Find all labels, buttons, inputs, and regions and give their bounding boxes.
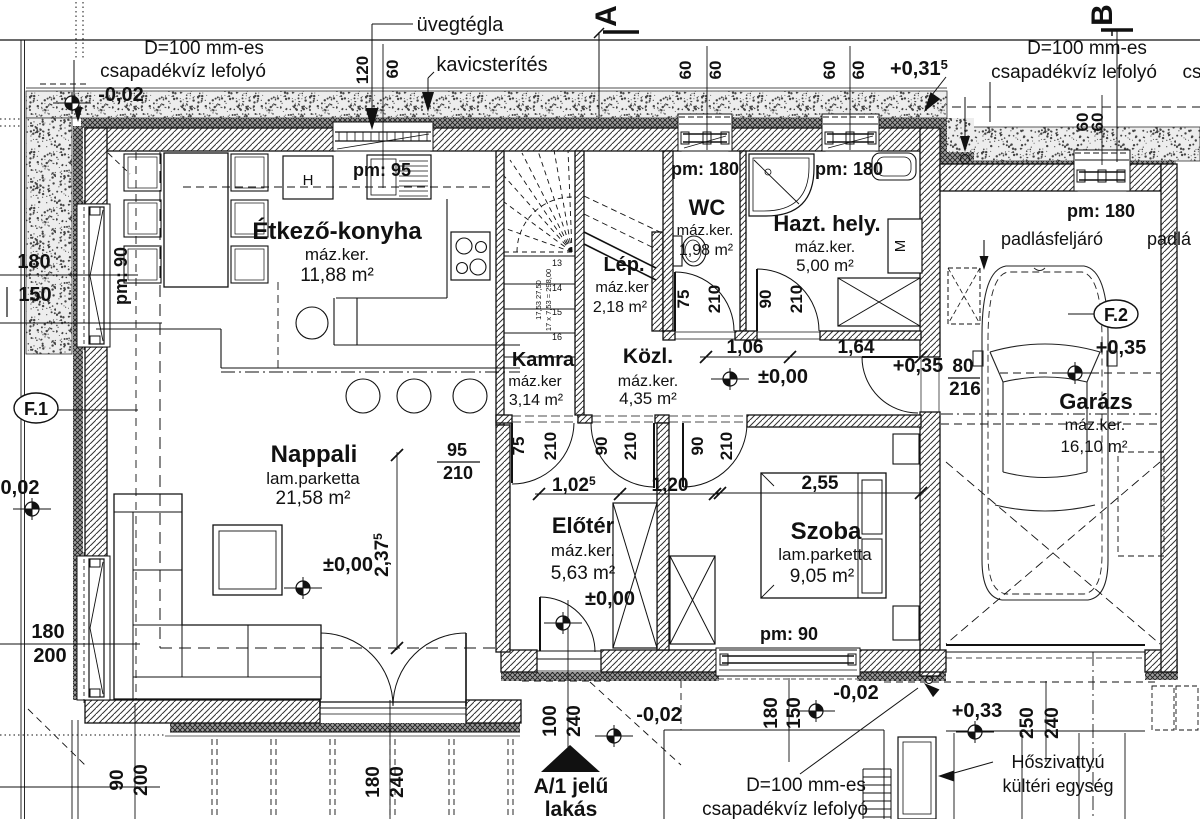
insulation strip top	[81, 118, 939, 128]
wall: eloter/szoba partition	[657, 423, 669, 650]
cooktop with burners	[451, 232, 490, 280]
wall: corridor south pier2	[578, 415, 592, 423]
leader bottom drain	[800, 688, 918, 774]
eloter wardrobe X	[613, 503, 657, 648]
svg-text:±0,00: ±0,00	[323, 554, 373, 576]
svg-text:210: 210	[621, 432, 640, 460]
leader heat pump	[954, 762, 993, 773]
svg-text:Étkező-konyha: Étkező-konyha	[252, 217, 422, 245]
hazt cabinet X	[838, 278, 920, 326]
svg-text:180: 180	[363, 766, 384, 798]
svg-text:5,63 m²: 5,63 m²	[551, 563, 615, 584]
svg-text:60: 60	[820, 61, 839, 80]
plot boundary double line left	[20, 40, 22, 819]
eaves dashed line right band	[952, 106, 1200, 108]
interior dashed vertical	[135, 152, 137, 700]
gravel top extra line	[26, 87, 947, 89]
svg-text:F.1: F.1	[24, 399, 48, 419]
svg-text:3,14 m²: 3,14 m²	[509, 392, 564, 409]
dim line eloter 1,02-5 / 1,20	[535, 493, 720, 495]
door: kozl-eloter (90/210) leaf+arc	[653, 423, 655, 488]
svg-text:pm: 180: pm: 180	[1067, 201, 1135, 221]
roof overhang dashed left vertical	[159, 152, 161, 648]
wall: corridor south pier1	[496, 415, 512, 423]
svg-text:4,35 m²: 4,35 m²	[619, 389, 677, 408]
roof overhang dashed bottom	[160, 647, 496, 649]
svg-text:16,10 m²: 16,10 m²	[1060, 437, 1127, 456]
svg-text:A: A	[590, 5, 623, 27]
svg-text:60: 60	[383, 60, 402, 79]
dim line kozl 1,06 / 1,64	[700, 356, 921, 358]
svg-text:21,58 m²: 21,58 m²	[276, 488, 351, 509]
svg-text:13: 13	[552, 258, 562, 268]
svg-text:-0,02: -0,02	[98, 84, 144, 106]
wall: szoba top	[747, 415, 921, 427]
svg-text:90: 90	[688, 437, 707, 456]
wall: eloter bottom left pier	[501, 650, 537, 672]
svg-text:150: 150	[18, 284, 51, 306]
svg-text:2,375: 2,375	[371, 533, 393, 577]
svg-text:210: 210	[541, 432, 560, 460]
wall: wc/hazt partition	[740, 151, 746, 331]
svg-text:60: 60	[849, 61, 868, 80]
padlasfeljaro arrow	[983, 240, 985, 258]
window: hazt top (pm:180, 60+60)	[822, 114, 879, 151]
svg-text:250: 250	[1017, 707, 1038, 739]
svg-text:pm: 95: pm: 95	[353, 160, 411, 180]
svg-text:cs: cs	[1183, 62, 1200, 83]
wall: wc-hazt bottom seg3	[820, 331, 921, 340]
leader line right D=100	[989, 82, 991, 122]
kitchen counter lines	[446, 199, 448, 298]
dim line nappali 2,37-5 vertical	[396, 452, 398, 650]
driveway dash-dot centerline	[1092, 652, 1094, 819]
svg-text:lam.parketta: lam.parketta	[266, 469, 360, 488]
door: kamra (75/210) leaf+arc	[511, 423, 513, 483]
svg-text:Közl.: Közl.	[623, 345, 673, 368]
wall: eloter-szoba bottom middle	[601, 650, 719, 672]
wall: garage top right segment	[1127, 164, 1161, 191]
svg-text:padlásfeljáró: padlásfeljáró	[1001, 229, 1103, 249]
svg-text:lam.parketta: lam.parketta	[778, 545, 872, 564]
insulation step right	[939, 118, 947, 170]
svg-text:kavicsterítés: kavicsterítés	[436, 54, 547, 76]
wall: top exterior, right segment	[876, 128, 921, 151]
dashed porch lines	[522, 680, 610, 682]
insulation strip right band	[947, 161, 1176, 170]
svg-text:máz.ker.: máz.ker.	[618, 373, 678, 390]
svg-text:1,20: 1,20	[652, 475, 689, 496]
svg-text:padlá: padlá	[1147, 229, 1192, 249]
stair: walk line arc	[517, 197, 572, 252]
svg-text:14: 14	[552, 283, 562, 293]
sofa L-shape	[114, 494, 321, 699]
gate rails bottom right	[1152, 686, 1174, 730]
svg-text:11,88 m²: 11,88 m²	[300, 265, 374, 286]
svg-text:±0,00: ±0,00	[585, 588, 635, 610]
svg-text:máz.ker.: máz.ker.	[305, 245, 369, 264]
kitchen chairs left column	[124, 154, 161, 191]
dotted terrace edge	[0, 734, 165, 736]
svg-text:csapadékvíz lefolyó: csapadékvíz lefolyó	[991, 62, 1157, 83]
bar stools circles	[346, 379, 380, 413]
svg-text:75: 75	[509, 437, 528, 456]
svg-text:Nappali: Nappali	[271, 441, 358, 468]
wall: bottom nappali left segment	[85, 700, 320, 723]
svg-text:B: B	[1086, 4, 1119, 26]
svg-text:máz.ker: máz.ker	[508, 373, 561, 390]
nightstand bottom	[893, 606, 919, 640]
rain downpipe symbol	[964, 97, 966, 145]
svg-text:180: 180	[761, 697, 782, 729]
dashed diagonal entrance	[590, 682, 681, 765]
kitchen chairs right column	[231, 154, 268, 191]
svg-text:60: 60	[706, 61, 725, 80]
marker F.1	[14, 393, 58, 423]
dotted setout lines top-left	[75, 2, 77, 60]
dim verticals top windows	[382, 44, 384, 188]
svg-text:180: 180	[31, 621, 64, 643]
coffee table	[213, 525, 282, 595]
svg-text:1,06: 1,06	[727, 337, 764, 358]
svg-text:A/1 jelű: A/1 jelű	[534, 775, 609, 798]
svg-text:Szoba: Szoba	[791, 518, 862, 545]
svg-text:csapadékvíz lefolyó: csapadékvíz lefolyó	[100, 61, 266, 82]
svg-text:17 x 7,53 = 298,00: 17 x 7,53 = 298,00	[544, 269, 553, 331]
wall: stair right / kamra partition	[575, 151, 584, 415]
svg-text:pm: 180: pm: 180	[671, 159, 739, 179]
wall: left exterior upper	[85, 128, 107, 204]
kitchen table	[164, 153, 228, 287]
stair: treads	[504, 255, 575, 257]
svg-text:210: 210	[443, 463, 473, 483]
svg-text:120: 120	[353, 56, 372, 84]
insulation strip below eloter wall	[501, 672, 719, 681]
kitchen corner dashed diagonal	[108, 153, 130, 174]
svg-text:80: 80	[952, 356, 973, 377]
svg-text:100: 100	[540, 705, 561, 737]
leader kavicsterites	[428, 72, 434, 78]
window: kitchen left (180/150)	[77, 204, 110, 347]
level marker eloter	[544, 612, 582, 634]
svg-text:2,18 m²: 2,18 m²	[593, 299, 648, 316]
wall: wc-hazt bottom seg1	[663, 331, 675, 340]
svg-text:210: 210	[717, 432, 736, 460]
svg-text:15: 15	[552, 307, 562, 317]
insulation strip left	[73, 126, 83, 700]
dashed diagonal bottom-left	[28, 709, 86, 766]
gravel bed top band	[26, 91, 947, 118]
garage dashed rect right	[1118, 452, 1164, 556]
wall: top exterior, between windows	[729, 128, 825, 151]
level marker szoba front	[797, 700, 835, 722]
level marker -0,02 top-left	[53, 92, 91, 114]
garage floor dashed X	[946, 462, 1160, 644]
svg-text:máz.ker.: máz.ker.	[677, 222, 734, 239]
svg-text:-0,02: -0,02	[636, 704, 682, 726]
driveway grid	[946, 730, 1145, 732]
entrance walkway	[663, 730, 665, 819]
svg-text:M: M	[892, 240, 909, 253]
insulation strip garage front	[900, 672, 946, 680]
leader uvegtegla	[372, 23, 413, 25]
window: szoba bottom (pm:90)	[716, 648, 860, 676]
svg-text:Hőszivattyú: Hőszivattyú	[1011, 752, 1104, 772]
svg-text:máz.ker.: máz.ker.	[551, 541, 615, 560]
svg-text:9,05 m²: 9,05 m²	[790, 566, 854, 587]
svg-text:5,00 m²: 5,00 m²	[796, 256, 854, 275]
section dash-dot line kitchen	[221, 371, 520, 373]
gravel bed right band (over garage)	[947, 127, 1200, 161]
svg-text:60: 60	[676, 61, 695, 80]
svg-text:1,98 m²: 1,98 m²	[679, 242, 734, 259]
wall: garage right exterior	[1161, 164, 1177, 672]
toilet WC	[673, 236, 682, 266]
window: wc top (pm:180, 60+60)	[678, 114, 732, 151]
exterior steps right	[863, 768, 891, 770]
svg-text:180: 180	[17, 251, 50, 273]
wall: garage front right pier	[1145, 650, 1177, 672]
svg-text:pm: 180: pm: 180	[815, 159, 883, 179]
wall: garage top left segment	[940, 164, 1077, 191]
svg-text:F.2: F.2	[1104, 305, 1128, 325]
bed	[761, 473, 886, 598]
svg-text:90: 90	[592, 437, 611, 456]
svg-text:2,55: 2,55	[802, 473, 839, 494]
svg-text:Garázs: Garázs	[1059, 389, 1132, 414]
wall: wc left	[663, 151, 673, 331]
gravel bed left band	[26, 118, 72, 354]
door: wc (75/210) leaf+arc	[674, 272, 676, 331]
svg-text:Hazt. hely.: Hazt. hely.	[773, 211, 880, 236]
svg-text:Előtér: Előtér	[552, 513, 615, 538]
svg-text:máz.ker.: máz.ker.	[1065, 417, 1125, 434]
wall: szoba bottom right segment	[857, 650, 920, 672]
svg-text:1,025: 1,025	[552, 474, 596, 496]
svg-text:D=100 mm-es: D=100 mm-es	[1027, 38, 1147, 59]
leader +0,31	[928, 77, 946, 100]
door: garage side door (80/216) leaf+arc	[862, 356, 918, 358]
window: kitchen top glass-block (uvegtegla, pm:95)	[333, 122, 433, 151]
wall: bottom nappali right segment	[466, 700, 521, 723]
insulation strip below nappali wall	[170, 723, 520, 732]
kitchen sink unit	[367, 155, 431, 199]
pendant lamp circle	[296, 307, 328, 339]
stair: upper flight diagonal (Lep)	[584, 232, 656, 268]
terrace deck boards	[170, 731, 520, 733]
svg-text:200: 200	[131, 764, 152, 796]
dim line szoba 2,55	[716, 492, 921, 494]
fence line bottom-left	[71, 720, 73, 819]
window: nappali left (180/200)	[77, 556, 110, 700]
wall: top exterior, kitchen segment	[85, 128, 335, 151]
fridge H	[283, 156, 333, 199]
svg-text:lakás: lakás	[545, 798, 598, 819]
svg-text:150: 150	[784, 697, 805, 729]
window: garage top (pm:180)	[1074, 150, 1130, 191]
svg-text:90: 90	[107, 769, 128, 790]
svg-text:+0,33: +0,33	[952, 700, 1003, 722]
svg-text:75: 75	[674, 290, 693, 309]
wall: corridor south pier3	[655, 415, 669, 423]
svg-text:H: H	[303, 172, 314, 189]
A/1 flat triangle marker	[541, 745, 600, 772]
marker F.2	[1094, 300, 1138, 328]
svg-text:+0,315: +0,315	[890, 57, 948, 80]
svg-text:16: 16	[552, 332, 562, 342]
svg-text:210: 210	[787, 285, 806, 313]
svg-text:-0,02: -0,02	[833, 682, 879, 704]
opening: nappali-eloter (95/210)	[495, 420, 497, 504]
svg-text:pm: 90: pm: 90	[111, 247, 131, 305]
level marker entrance -0,02	[595, 725, 633, 747]
washing machine M	[888, 219, 922, 273]
wall: top exterior, stair segment	[431, 128, 681, 151]
svg-text:240: 240	[564, 705, 585, 737]
svg-text:WC: WC	[689, 195, 726, 220]
svg-text:kültéri egység: kültéri egység	[1002, 776, 1113, 796]
wall: right exterior upper (house/garage)	[920, 128, 940, 357]
svg-text:210: 210	[705, 285, 724, 313]
shower tray (Hazt.hely corner)	[749, 154, 814, 216]
svg-text:95: 95	[447, 440, 467, 460]
svg-text:17,53 27,50: 17,53 27,50	[534, 280, 543, 320]
wall: right exterior lower (house/garage)	[920, 412, 940, 676]
door: nappali terrace french door leafs+arcs	[319, 633, 321, 706]
stair: winder dashed radials	[504, 251, 572, 253]
door: szoba (90/210) leaf+arc	[682, 423, 684, 487]
dim verticals bottom	[134, 703, 136, 819]
level marker kozl	[711, 368, 749, 390]
svg-text:üvegtégla: üvegtégla	[417, 14, 505, 36]
svg-text:240: 240	[387, 766, 408, 798]
garage dashed guide lines	[941, 413, 1160, 415]
svg-text:máz.ker.: máz.ker.	[795, 239, 855, 256]
svg-text:máz.ker: máz.ker	[595, 279, 648, 296]
wall: wc-hazt bottom seg2	[735, 331, 757, 340]
wall: nappali/eloter partition	[496, 425, 510, 652]
leader padlasfeljaro left arrow already; top-left arrow	[74, 107, 83, 122]
svg-text:200: 200	[33, 645, 66, 667]
door: entrance (100/240) leaf+arc	[539, 597, 541, 651]
svg-text:+0,35: +0,35	[893, 355, 944, 377]
svg-text:±0,00: ±0,00	[758, 366, 808, 388]
car top view	[973, 266, 1117, 600]
svg-text:240: 240	[1042, 707, 1063, 739]
level marker -0,02 left	[13, 498, 51, 520]
svg-text:60: 60	[1088, 113, 1107, 132]
wall: lep stub	[652, 232, 663, 331]
wall: left exterior middle	[85, 347, 107, 556]
svg-text:Lép.: Lép.	[603, 254, 644, 276]
level marker +0,33	[956, 721, 994, 743]
svg-text:0,02: 0,02	[1, 477, 40, 499]
svg-text:D=100 mm-es: D=100 mm-es	[746, 775, 866, 796]
kitchen upper cabinet dashed line	[183, 186, 494, 188]
garage door	[946, 644, 1145, 646]
kitchen dashed guide vertical	[277, 282, 279, 372]
top boundary line	[0, 39, 1200, 41]
svg-text:pm: 90: pm: 90	[760, 624, 818, 644]
svg-text:Kamra: Kamra	[512, 349, 575, 371]
level marker garage	[1056, 362, 1094, 384]
szoba wardrobe X	[670, 556, 715, 644]
washbasin	[872, 153, 916, 180]
wall: garage front left pier	[920, 650, 946, 672]
svg-text:csapadékvíz lefolyó: csapadékvíz lefolyó	[702, 799, 868, 819]
svg-text:216: 216	[949, 379, 981, 400]
level marker nappali	[284, 577, 322, 599]
attic ladder dashed rect	[948, 268, 980, 324]
wall: stair left	[496, 151, 504, 425]
door: hazt.hely (90/210) leaf+arc	[756, 269, 758, 331]
nightstand top	[893, 434, 919, 464]
svg-text:+0,35: +0,35	[1096, 337, 1147, 359]
svg-text:D=100 mm-es: D=100 mm-es	[144, 38, 264, 59]
heat pump unit	[898, 737, 936, 819]
svg-text:90: 90	[756, 290, 775, 309]
svg-text:1,64: 1,64	[838, 337, 875, 358]
